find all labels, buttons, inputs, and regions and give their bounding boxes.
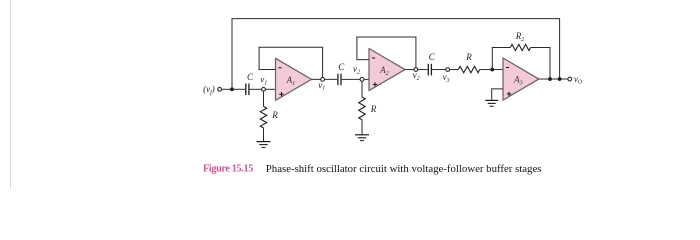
- svg-text:(vf): (vf): [203, 84, 215, 96]
- wire: global feedback left vertical: [231, 19, 233, 90]
- wire: global feedback top horizontal: [232, 18, 561, 20]
- wire: R2 feedback left vertical: [491, 48, 493, 70]
- wire: v1 to A1 plus input: [265, 88, 275, 90]
- caption text: [266, 163, 542, 175]
- svg-text:v2: v2: [413, 70, 420, 82]
- wire: v1 down to resistor R: [263, 91, 265, 106]
- resistor R (stage 2): [359, 97, 365, 120]
- svg-text:R: R: [465, 52, 472, 62]
- wire: R2 feedback right horizontal: [531, 47, 551, 49]
- wire: A1 feedback into minus input: [259, 68, 276, 70]
- node: A3 inverting input junction: [490, 68, 494, 72]
- capacitor C (stage 3): [428, 64, 431, 76]
- node: input junction: [230, 87, 234, 91]
- node v3 (open circle): [443, 68, 450, 84]
- wire: global feedback right vertical: [559, 19, 561, 79]
- svg-text:v1: v1: [318, 80, 325, 92]
- resistor R (stage 1): [260, 106, 266, 128]
- wire: A2 feedback into minus input: [356, 59, 369, 61]
- wire: R2 feedback right vertical: [549, 48, 551, 80]
- svg-text:Figure 15.15: Figure 15.15: [203, 164, 253, 175]
- value label C (stage 3): [429, 52, 436, 62]
- op-amp A1: [276, 58, 312, 100]
- wire: A2 feedback up from output node: [415, 37, 417, 68]
- wire: v2 node to C3: [418, 69, 428, 71]
- node: output junction to global feedback: [558, 77, 562, 81]
- value label R2: [515, 31, 525, 43]
- capacitor C (stage 2): [338, 74, 341, 86]
- value label C (C1): [247, 72, 254, 82]
- wire: C2 to node v2: [342, 78, 360, 80]
- value label R (stage 1): [271, 110, 278, 120]
- wire: A2 feedback left vertical: [356, 37, 358, 60]
- svg-text:C: C: [338, 62, 345, 72]
- wire: junction to C1: [232, 88, 245, 90]
- ground (A3 plus input): [485, 100, 498, 106]
- wire: A3 plus input to ground: [492, 89, 503, 101]
- wire: A1 feedback left vertical: [258, 47, 260, 70]
- svg-text:C: C: [429, 52, 436, 62]
- svg-text:C: C: [247, 72, 254, 82]
- wire: v2 down to resistor R: [361, 81, 363, 97]
- node v2 (open circle): [353, 64, 364, 81]
- wire: A2 feedback top horizontal: [356, 36, 416, 38]
- wire: A1 feedback top horizontal: [259, 46, 324, 48]
- ground (stage 2): [355, 135, 369, 141]
- node v2 at A2 output (open circle): [413, 68, 420, 82]
- wire: R2 feedback left horizontal: [492, 47, 511, 49]
- page edge line: [10, 0, 12, 189]
- value label R (stage 3): [465, 52, 472, 62]
- node v1 at A1 output (open circle): [318, 77, 325, 91]
- wire: v1 node to C2: [325, 78, 338, 80]
- value label C (stage 2): [338, 62, 345, 72]
- wire: R to ground (stage 2): [361, 120, 363, 135]
- wire: v3 to resistor R: [450, 69, 459, 71]
- wire: A2 output to node v2 (buffered): [405, 69, 414, 71]
- input terminal (vf): [203, 84, 221, 96]
- op-amp A3: [503, 58, 539, 100]
- wire: A3 output to vO terminal: [539, 78, 568, 80]
- resistor R2 (feedback): [510, 44, 530, 50]
- ground (stage 1): [257, 142, 271, 148]
- output terminal vO: [568, 74, 583, 86]
- wire: A1 feedback up from output node: [322, 47, 324, 77]
- svg-text:v1: v1: [260, 75, 267, 87]
- svg-text:vO: vO: [574, 74, 583, 86]
- op-amp A2: [369, 49, 405, 91]
- wire: C3 to node v3: [432, 69, 446, 71]
- svg-text:v2: v2: [353, 64, 360, 76]
- resistor R (stage 3, horizontal): [458, 66, 479, 72]
- wire: R to ground (stage 1): [263, 128, 265, 142]
- capacitor C1: [246, 84, 249, 96]
- value label R (stage 2): [370, 104, 377, 114]
- svg-text:R: R: [271, 110, 278, 120]
- svg-text:R2: R2: [515, 31, 525, 43]
- wire: A1 output to node v1 (buffered): [312, 78, 321, 80]
- wire: R to A3 input junction: [480, 69, 493, 71]
- caption figure number: [203, 164, 253, 175]
- svg-text:R: R: [370, 104, 377, 114]
- wire: junction to A3 minus input: [492, 69, 503, 71]
- node: R2 to output junction: [548, 77, 552, 81]
- wire input terminal to junction: [222, 88, 232, 90]
- node v1 (open circle): [260, 75, 267, 92]
- wire: C1 to node v1: [250, 88, 262, 90]
- svg-text:Phase-shift oscillator circuit: Phase-shift oscillator circuit with volt…: [266, 163, 542, 175]
- svg-text:v3: v3: [443, 72, 450, 84]
- wire: v2 to A2 plus input: [364, 78, 369, 80]
